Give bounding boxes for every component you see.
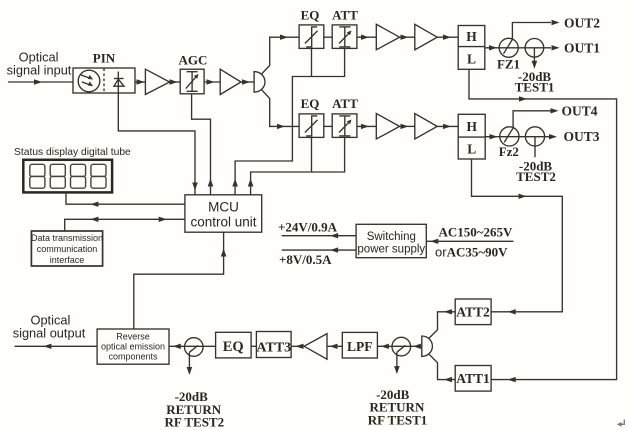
wire H/L to Fz2 (485, 136, 549, 138)
svg-text:ATT1: ATT1 (456, 371, 490, 386)
wire amp to AGC (170, 81, 181, 83)
filter LPF (342, 332, 377, 358)
test point RF TEST1 (392, 337, 411, 356)
wire MCU to data interface (65, 219, 185, 231)
wire FZ1 to OUT2 (512, 23, 551, 40)
wire splitter to EQ row1 (262, 37, 299, 74)
wire MCU to AGC (192, 94, 211, 195)
svg-text:interface: interface (50, 255, 85, 265)
svg-text:Reverse: Reverse (116, 332, 150, 342)
wire ATT to amp row1 (357, 36, 376, 38)
svg-text:communication: communication (37, 244, 98, 254)
splitter S1 (254, 72, 265, 93)
svg-text:TEST1: TEST1 (515, 80, 555, 95)
wire amp to H/L row2 (437, 125, 458, 127)
amplifier A2 (220, 69, 241, 94)
wire ATT2 to combiner (429, 312, 455, 338)
svg-text:EQ: EQ (223, 339, 244, 355)
wire combiner to tap (413, 344, 421, 349)
svg-text:Switching: Switching (367, 231, 416, 243)
svg-text:MCU: MCU (208, 200, 239, 215)
svg-text:ATT2: ATT2 (456, 304, 490, 319)
svg-text:RF TEST2: RF TEST2 (164, 415, 224, 430)
digit 4 (91, 164, 106, 176)
reverse optical emission components (97, 329, 169, 364)
equalizer EQ return path (216, 332, 252, 358)
svg-text:TEST2: TEST2 (516, 169, 556, 184)
H/L switch U2 (458, 114, 485, 159)
test point RF TEST2 (185, 338, 204, 357)
svg-text:ATT: ATT (332, 8, 358, 23)
wire ATT1 to combiner (429, 354, 455, 379)
wire PIN to MCU (118, 93, 195, 195)
svg-text:FZ1: FZ1 (497, 57, 520, 72)
return mark (620, 420, 624, 425)
wire AGC to amp (204, 81, 220, 83)
svg-text:+24V/0.9A: +24V/0.9A (278, 220, 338, 235)
coupler Fz2 (500, 127, 519, 146)
svg-text:PIN: PIN (93, 51, 116, 66)
svg-text:Data transmission: Data transmission (31, 233, 103, 243)
digit 2 (50, 164, 65, 176)
svg-text:EQ: EQ (301, 96, 320, 111)
svg-text:ATT3: ATT3 (256, 340, 291, 355)
svg-text:OUT2: OUT2 (564, 15, 600, 30)
svg-text:H: H (466, 119, 477, 134)
svg-text:L: L (467, 52, 476, 67)
svg-text:components: components (108, 352, 158, 362)
svg-text:L: L (467, 142, 476, 157)
svg-text:+8V/0.5A: +8V/0.5A (279, 252, 332, 267)
svg-text:EQ: EQ (301, 8, 320, 23)
wire tap to reverse components (169, 345, 216, 347)
combiner S2 (422, 336, 433, 356)
svg-text:H: H (466, 29, 477, 44)
svg-text:OUT3: OUT3 (564, 129, 600, 144)
amplifier A7 return (304, 334, 327, 360)
svg-text:LPF: LPF (347, 339, 373, 354)
svg-text:orAC35~90V: orAC35~90V (435, 245, 508, 260)
svg-text:optical emission: optical emission (101, 342, 165, 352)
amplifier A4 row1 (415, 24, 437, 50)
wire MCU to row1 EQ/ATT (235, 48, 345, 194)
coupler FZ1 (499, 38, 518, 57)
digit 1 (30, 164, 106, 188)
wire amp to splitter (241, 81, 254, 83)
wire EQ to ATT3 (251, 345, 256, 347)
svg-text:AC150~265V: AC150~265V (439, 225, 514, 240)
wire amp to amp row2 (400, 125, 415, 127)
svg-text:RF TEST1: RF TEST1 (368, 413, 428, 428)
wire tap to LPF (377, 345, 421, 347)
wire Fz2 to OUT4 (513, 111, 551, 128)
svg-text:ATT: ATT (332, 96, 358, 111)
wire optical output (15, 345, 98, 347)
amplifier A1 (145, 69, 169, 94)
svg-text:control unit: control unit (190, 215, 256, 230)
diode inside PIN (117, 72, 119, 94)
attenuator ATT1 (455, 366, 491, 392)
test point TP1 (525, 39, 544, 58)
svg-text:Fz2: Fz2 (499, 144, 519, 159)
amplifier A5 row2 (376, 114, 399, 140)
wire splitter to EQ row2 (262, 90, 299, 127)
wire EQ to ATT row2 (324, 125, 332, 127)
wire reverse components to MCU (134, 232, 224, 329)
wire L2 to ATT2 (472, 159, 563, 312)
svg-text:AGC: AGC (179, 53, 208, 68)
digit 3 (71, 164, 86, 176)
svg-text:OUT4: OUT4 (562, 104, 598, 119)
data transmission communication interface (31, 231, 102, 266)
amplifier A6 row2 (415, 114, 437, 140)
svg-text:Status display digital tube: Status display digital tube (14, 147, 131, 158)
MCU control unit (185, 195, 262, 232)
H/L switch U1 (458, 26, 485, 70)
svg-text:OUT1: OUT1 (564, 40, 600, 55)
wire L1 to ATT1 (469, 69, 617, 379)
wire amp to H/L row1 (437, 36, 458, 38)
svg-text:signal input: signal input (7, 63, 72, 78)
wire +24V (282, 235, 356, 237)
wire to OUT1 (552, 45, 560, 50)
attenuator ATT3 (256, 332, 291, 358)
display digital tube (23, 160, 112, 193)
wire +8V (282, 249, 356, 251)
test point TP2 (525, 127, 544, 146)
svg-text:signal output: signal output (13, 326, 86, 341)
wire AC input (426, 240, 513, 242)
switching power supply (356, 224, 426, 257)
amplifier A3 row1 (376, 24, 399, 50)
wire input to PIN (8, 81, 73, 83)
wire MCU to row2 EQ/ATT (251, 137, 345, 194)
wire ATT to amp row2 (357, 125, 376, 127)
wire MCU to display (66, 192, 185, 204)
svg-text:power supply: power supply (357, 244, 425, 256)
attenuator ATT2 (455, 299, 491, 325)
wire LPF to amp (327, 345, 342, 347)
wire to OUT3 (549, 134, 557, 139)
wire PIN to amp (135, 81, 145, 83)
wire EQ to ATT row1 (324, 36, 332, 38)
wire H/L to FZ1 (485, 47, 551, 49)
wire amp to amp row1 (400, 36, 415, 38)
wire amp to ATT3 (291, 345, 304, 347)
